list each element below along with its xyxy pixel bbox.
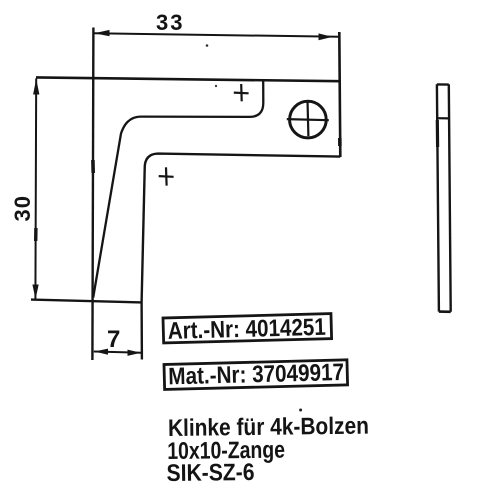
dim line 33 (94, 33, 340, 37)
arrow 30 bottom (32, 285, 38, 300)
scan blob on side view left edge (436, 120, 440, 147)
wire left edge of part / 33 and 7 extension line (92, 28, 93, 361)
svg-text:SIK-SZ-6: SIK-SZ-6 (166, 459, 254, 487)
box Mat.-Nr frame (164, 358, 348, 389)
node center mark upper (240, 84, 243, 101)
side view divider line (437, 117, 449, 119)
dim line 7 (94, 352, 142, 353)
scan blob on right edge of part (338, 138, 342, 146)
node center mark lower (165, 167, 168, 185)
scan blob on 30 dim line (34, 228, 38, 241)
text Klinke fuer 4k-Bolzen (166, 412, 370, 486)
hole crosshair vertical (306, 100, 309, 136)
wire bottom edge of arm, hook arc and leg right edge with 7 extension (142, 154, 341, 360)
svg-text:33: 33 (156, 10, 184, 35)
hole circle (290, 101, 327, 138)
wire right edge of part (339, 32, 340, 157)
wire inner contour (step edge) (93, 81, 263, 298)
side view left edge (437, 84, 439, 311)
speck left mid (215, 85, 217, 87)
svg-text:7: 7 (107, 326, 120, 353)
svg-text:30: 30 (10, 195, 35, 221)
side view bottom edge (439, 310, 451, 313)
wire bottom edge of leg + 30-dim extension (31, 300, 142, 303)
svg-text:Mat.-Nr: 37049917: Mat.-Nr: 37049917 (168, 359, 344, 390)
arrow 33 left (94, 30, 109, 36)
arrow 7 right (128, 350, 141, 356)
speck above Bolzen (299, 409, 302, 412)
svg-text:Art.-Nr: 4014251: Art.-Nr: 4014251 (167, 313, 326, 344)
side view top edge (437, 83, 449, 86)
box Art.-Nr frame (163, 313, 332, 344)
dim line 30 (34, 79, 37, 300)
scan blob on left edge (91, 160, 95, 173)
hole crosshair horizontal (287, 119, 329, 120)
arrow 7 left (95, 349, 108, 355)
speck near dim line (206, 44, 209, 47)
wire top edge of part + 30-dim extension (36, 77, 340, 81)
side view right edge (449, 84, 451, 311)
arrow 33 right (319, 33, 333, 40)
arrow 30 top (33, 79, 39, 95)
